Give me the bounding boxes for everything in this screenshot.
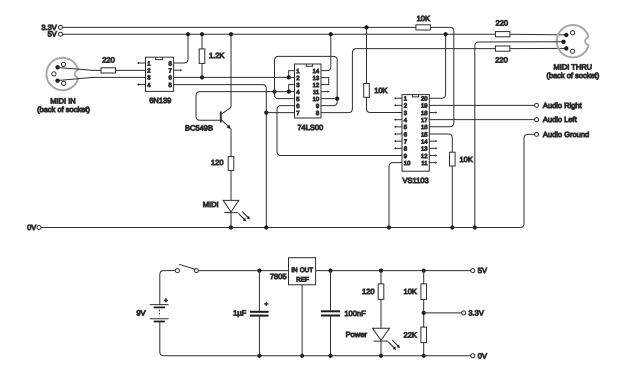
VS1103 pin 14 nc stub [429,140,435,142]
74LS00 pin 11 nc stub [321,91,328,93]
capacitor C1 1uF [258,271,260,311]
junction pin6/1.2K [200,75,204,79]
junction 5V/pin14 [329,32,333,36]
LED D1 arrows [239,212,249,220]
VS1103 pin 8 nc stub [396,147,402,149]
svg-text:15: 15 [421,131,428,138]
wire 7805 REF to 0V rail [301,285,303,356]
svg-text:12: 12 [313,82,320,89]
connector MIDI THRU socket body [557,25,589,57]
svg-text:(back of socket): (back of socket) [546,71,599,80]
svg-text:1: 1 [296,68,299,75]
wire top rail to switch [164,270,176,272]
logic IC U2 74LS00 body [295,64,322,118]
svg-text:MIDI: MIDI [203,200,219,209]
svg-text:13: 13 [313,75,320,82]
svg-text:5V: 5V [48,30,57,39]
svg-text:Audio Left: Audio Left [543,115,578,124]
wire 74LS00 pins 12-13 bracket [321,78,329,85]
svg-text:1.2K: 1.2K [209,51,224,60]
junction pins3-4 [287,90,291,94]
svg-text:2: 2 [147,68,150,75]
svg-text:9V: 9V [136,309,145,318]
transistor Q1 BC549B [220,111,222,122]
svg-text:9: 9 [316,103,319,110]
node 3.3V input terminal [59,25,63,29]
wire 0V rail [41,134,535,227]
wire 3.3V rail [63,26,416,28]
resistor R-10K (pin15, vertical) [450,152,456,166]
svg-text:6N139: 6N139 [149,96,171,105]
svg-text:REF: REF [296,276,309,283]
svg-text:3.3V: 3.3V [468,308,483,317]
wire 74LS00 feedback ring pin5-pin9 [275,56,338,105]
LED D2 arrows [389,340,399,348]
wire bottom rail [164,355,471,357]
resistor R-10K (pull-up, vertical) [364,84,370,98]
wire VS1103 pin 10 to 0V [389,163,402,228]
svg-text:10: 10 [404,160,411,167]
battery B1 9V [150,304,169,306]
junction 0V/VS1103 pin10 [387,225,391,229]
svg-text:220: 220 [496,18,509,27]
resistor R-220 (MIDI THRU 5V, horizontal) [495,32,510,37]
svg-text:9: 9 [404,153,407,160]
wire 6N139 pin 6 to 74LS00 pins 1-2 [174,76,289,78]
resistor R-120 (MIDI LED, vertical) [228,157,234,171]
node 0V terminal [37,226,41,230]
resistor R-120 (power LED, vertical) [380,271,382,284]
svg-text:5V: 5V [478,266,487,275]
wire 6N139 pin 8 to 5V [174,34,188,63]
junction pins1-2 [287,75,291,79]
svg-text:16: 16 [421,124,428,131]
junction bottom rail/22K [422,354,426,358]
svg-text:18: 18 [421,110,428,117]
wire 3.3V to 10K pullup [366,27,368,83]
svg-text:7: 7 [296,110,299,117]
wire R220 to 6N139 pin 2 [116,69,146,71]
junction rail/120 [379,269,383,273]
svg-text:7805: 7805 [270,272,287,281]
wire VS1103 pin 15 to 10K [429,134,452,152]
wire 74LS00 pin 6 to VS1103 pin 9 [277,106,402,156]
resistor R-10K (divider, vertical) [423,271,425,284]
svg-text:Audio Ground: Audio Ground [543,130,589,139]
wire switch to 7805 [198,270,288,272]
wire MIDI IN pin5 to 6N139 pin 3 [58,77,146,80]
LED D2 Power [373,328,390,340]
MIDI IN pin 1 (open) [61,62,65,66]
junction 0V/10K [450,225,454,229]
resistor R-10K (3.3V rail, horizontal) [416,25,431,30]
junction 0V/THRU ground [473,225,477,229]
MIDI THRU pin 3 (open) [571,49,575,53]
6N139 pin 1 nc stub [139,62,146,64]
svg-text:11: 11 [421,160,427,167]
VS1103 pin 5 nc stub [396,126,402,128]
svg-text:14: 14 [421,138,428,145]
connector MIDI IN socket body [46,58,78,90]
svg-text:7: 7 [169,68,172,75]
wire 74LS00 pins 3-4 bracket [289,85,295,92]
junction 5V/collector [229,32,233,36]
junction 3.3V/10K [364,25,368,29]
junction base-wire/ring [272,90,276,94]
svg-text:220: 220 [495,56,508,65]
node 5V input terminal [59,32,63,36]
VS1103 pin 6 nc stub [396,133,402,135]
svg-text:22K: 22K [404,330,417,339]
svg-text:BC549B: BC549B [185,123,213,132]
op-amp U1 6N139 body [146,57,174,91]
svg-text:Audio Right: Audio Right [543,101,583,110]
node 0V output terminal [471,354,475,358]
junction bottom rail/1uF [257,354,261,358]
svg-text:+: + [164,298,168,305]
MIDI IN pin 2 (open) [52,72,56,76]
wire 5V to MIDI THRU pin 4 [510,33,566,36]
wire 5V rail [63,33,496,35]
wire 220 to MIDI THRU pin 5 [510,47,566,49]
junction rail/100nF [328,269,332,273]
wire VS1103 pin 9 stub [396,154,402,156]
VS1103 pin 2 nc stub [396,104,402,106]
svg-text:220: 220 [102,56,115,65]
svg-text:120: 120 [362,287,375,296]
MIDI IN pin 4 (filled) [55,65,59,69]
VS1103 pin 12 nc stub [429,154,435,156]
svg-text:19: 19 [421,103,428,110]
MIDI THRU pin 1 (open) [571,31,575,35]
switch SW1 [175,269,179,273]
VS1103 pin 4 nc stub [396,119,402,121]
svg-text:10K: 10K [417,14,430,23]
svg-text:1: 1 [404,96,407,103]
VS1103 pin 13 nc stub [429,147,435,149]
wire 3.3V rail corner down to VS1103 pin 16 [429,27,454,126]
wire 74LS00 pin 7 to ground [266,112,294,114]
svg-text:2: 2 [296,75,299,82]
node Audio Right terminal [535,103,539,107]
svg-text:2: 2 [404,103,407,110]
svg-text:74LS00: 74LS00 [297,123,323,132]
junction bottom rail/LED [379,354,383,358]
junction 0V/MIDI LED [229,225,233,229]
regulator U4 7805 body [289,258,316,285]
svg-text:10: 10 [313,96,320,103]
svg-text:100nF: 100nF [344,309,366,318]
resistor R-220 (MIDI IN, horizontal) [101,68,116,73]
MIDI THRU pin 5 (filled) [564,46,568,50]
node 5V output terminal [471,269,475,273]
wire MIDI IN pin4 to R220 [58,68,101,71]
wire 74LS00 pin 14 to 5V [321,34,331,70]
wire 6N139 pin 5 to ground rail [174,85,267,228]
node Audio Ground terminal [535,132,539,136]
svg-text:120: 120 [211,158,224,167]
svg-text:12: 12 [421,153,428,160]
wire VS1103 pin 17 Audio Left [429,119,534,121]
node 3.3V output terminal [462,311,466,315]
junction bottom rail/100nF [328,354,332,358]
svg-text:MIDI THRU: MIDI THRU [553,62,592,71]
wire 74LS00 pins 1-2 bracket [289,71,295,78]
wire R120 to LED [230,170,232,200]
wire 5V to BC549B collector [230,34,232,107]
wire VS1103 pin 19 Audio Right [429,104,534,106]
svg-text:10K: 10K [374,86,387,95]
IC U3 VS1103 body [402,95,429,172]
svg-text:10K: 10K [460,155,473,164]
MIDI THRU pin 2 (filled) [561,40,565,44]
svg-text:17: 17 [421,117,428,124]
resistor R-22K (divider, vertical) [421,327,427,343]
junction divider 3.3V tap [422,311,426,315]
wire 74LS00 pin 8 to 220/MIDI THRU [321,49,495,113]
junction 5V/VS1103 pin20 [444,32,448,36]
wire 7805 OUT rail [316,270,471,272]
junction 0V/ground-vertical [264,225,268,229]
junction ring/pin10 [335,97,339,101]
junction 5V/1.2K [200,32,204,36]
MIDI THRU pin 4 (filled) [564,33,568,37]
resistor R-1.2K (vertical) [201,34,203,49]
svg-text:0V: 0V [478,351,487,360]
svg-text:14: 14 [313,68,320,75]
svg-text:1: 1 [147,60,150,67]
svg-text:IN: IN [291,267,298,274]
wire ground to MIDI THRU pin 2 [475,42,564,228]
6N139 pin 7 nc stub [174,69,181,71]
MIDI IN pin 5 (filled) [55,79,59,83]
svg-text:(back of socket): (back of socket) [37,105,90,114]
svg-text:20: 20 [421,96,428,103]
svg-text:13: 13 [421,146,428,153]
6N139 pin 4 nc stub [139,84,146,86]
svg-text:7: 7 [404,138,407,145]
wire 74LS00 pins3-4 to BC549B base [196,92,289,121]
svg-text:0V: 0V [27,223,36,232]
svg-text:VS1103: VS1103 [403,176,429,185]
junction ground/74LS00 pin7 [264,111,268,115]
wire VS1103 pin 20 to 5V [429,34,445,98]
LED D1 MIDI [223,200,239,212]
capacitor C2 100nF [330,271,332,311]
svg-text:11: 11 [313,89,319,96]
resistor R-220 (MIDI THRU data, horizontal) [495,46,510,51]
wire battery left rail [160,271,164,356]
svg-text:Power: Power [346,330,368,339]
svg-text:OUT: OUT [300,267,314,274]
VS1103 pin 11 nc stub [429,162,435,164]
wire tap to 3.3V terminal [424,312,462,314]
VS1103 pin 7 nc stub [396,140,402,142]
svg-text:1µF: 1µF [233,309,246,318]
wire BC549B emitter to R120 [230,129,232,157]
node Audio Left terminal [535,118,539,122]
svg-text:+: + [264,301,268,308]
junction rail/1uF [257,269,261,273]
wire 10K to 0V [451,166,453,228]
MIDI IN pin 3 (open) [62,81,66,85]
wire 10K to VS1103 pin 3 [367,97,403,112]
wire 74LS00 pin 10 to ring [321,98,337,100]
junction bottom rail/REF [300,354,304,358]
junction 5V/pin8 [186,32,190,36]
VS1103 pin 1 nc stub [396,97,402,99]
svg-text:10K: 10K [404,287,417,296]
VS1103 pin 18 nc stub [429,112,435,114]
junction rail/10K divider [422,269,426,273]
